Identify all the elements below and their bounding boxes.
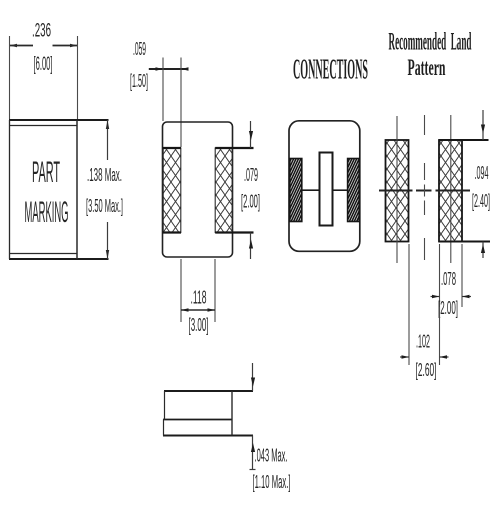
arrowhead left .059: [156, 67, 164, 71]
side view middle line: [163, 419, 232, 421]
svg-text:CONNECTIONS: CONNECTIONS: [293, 55, 368, 86]
side view top line: [164, 390, 253, 392]
arrowhead right .236: [70, 44, 78, 48]
dimension line .094 upper: [482, 110, 484, 140]
arrowhead right .078: [462, 295, 470, 299]
base left edge: [163, 420, 165, 436]
svg-text:PART: PART: [32, 156, 60, 189]
dimension line .043 lower: [252, 436, 254, 470]
side view right edge: [231, 391, 233, 436]
connections outline rounded rect: [289, 121, 360, 252]
extension line left .059: [162, 58, 164, 122]
arrowhead left .236: [10, 44, 18, 48]
svg-text:Pattern: Pattern: [408, 55, 446, 80]
horizontal centerline through pads: [379, 190, 470, 192]
right terminal pad hatched: [348, 159, 360, 222]
svg-text:MARKING: MARKING: [25, 196, 69, 229]
left pad vertical centerline: [396, 116, 398, 263]
extension line left .118: [180, 259, 182, 322]
body left edge: [9, 120, 11, 259]
extension line left .236: [9, 36, 11, 119]
extension line left .078: [439, 244, 441, 307]
svg-text:.059: .059: [133, 39, 146, 59]
arrowhead top .138: [106, 120, 109, 129]
dimension arrow line left .078: [431, 296, 440, 298]
right pad top edge / extension: [215, 147, 253, 149]
dimension line .079 lower: [250, 233, 252, 260]
svg-text:[2.00]: [2.00]: [438, 298, 458, 318]
left land pad crosshatched: [386, 140, 409, 242]
svg-text:Recommended Land: Recommended Land: [389, 29, 472, 56]
lead wire left: [302, 189, 320, 191]
svg-text:.079: .079: [244, 165, 258, 185]
body inner bottom line: [10, 253, 77, 255]
right land pad crosshatched: [439, 140, 462, 242]
arrowhead left .102: [402, 355, 410, 359]
left terminal pad hatched: [290, 159, 302, 222]
extension line right .236: [77, 36, 79, 119]
right pad vertical centerline: [450, 115, 452, 263]
right pad bottom extension line: [439, 241, 490, 243]
svg-text:.094: .094: [475, 163, 489, 183]
svg-text:.078: .078: [441, 269, 456, 289]
dimension line .043 upper: [252, 363, 254, 391]
svg-text:.118: .118: [191, 288, 207, 308]
svg-text:.043 Max.: .043 Max.: [255, 446, 288, 466]
svg-text:.102: .102: [416, 332, 430, 352]
svg-text:[2.00]: [2.00]: [241, 192, 260, 212]
body outline bottom line: [9, 258, 109, 260]
dimension line .138: [107, 120, 109, 259]
arrowhead lower .079: [249, 240, 253, 249]
svg-text:[2.40]: [2.40]: [472, 191, 490, 211]
arrowhead upper .079: [249, 131, 253, 140]
body outline top line: [9, 119, 109, 121]
svg-text:[3.00]: [3.00]: [189, 315, 209, 335]
arrowhead upper .094: [481, 125, 485, 134]
right pad bottom edge / extension: [215, 231, 253, 233]
svg-text:[2.60]: [2.60]: [416, 360, 437, 380]
arrowhead lower .043: [251, 443, 255, 452]
svg-text:.138 Max.: .138 Max.: [87, 165, 122, 185]
arrowhead lower .094: [481, 244, 485, 253]
left pad bottom edge: [163, 231, 182, 233]
left pad top edge: [163, 147, 182, 149]
crystal element rect: [320, 153, 333, 226]
arrowhead left .118: [181, 308, 189, 312]
arrowhead upper .043: [251, 378, 255, 387]
svg-text:[6.00]: [6.00]: [34, 54, 53, 75]
right pad crosshatched: [215, 148, 232, 233]
dimension line .059: [149, 68, 187, 70]
body inner top line: [10, 125, 77, 127]
dimension line .236: [10, 45, 78, 47]
svg-text:[1.10 Max.]: [1.10 Max.]: [253, 472, 291, 492]
arrowhead right .059: [181, 67, 189, 71]
lead wire right: [333, 189, 348, 191]
lid left edge: [164, 391, 166, 420]
right pad top extension line: [439, 139, 489, 141]
extension line right .078: [461, 244, 463, 307]
side view bottom line: [163, 435, 253, 437]
arrowhead left .078: [432, 295, 440, 299]
arrowhead bottom .138: [106, 250, 109, 259]
arrowhead right .118: [208, 308, 216, 312]
svg-text:[1.50]: [1.50]: [130, 71, 148, 91]
arrowhead right .102: [440, 355, 448, 359]
dimension line .094 lower: [482, 242, 484, 259]
left pad crosshatched: [163, 148, 181, 233]
dimension line .079 upper: [250, 121, 252, 148]
extension line right .102: [439, 307, 441, 365]
package outline rounded rect: [163, 122, 233, 257]
dimension arrow line right .102: [440, 356, 449, 358]
center mark vertical dashed line: [424, 115, 426, 260]
dimension line foot tick: [250, 469, 256, 471]
svg-text:[3.50 Max.]: [3.50 Max.]: [86, 196, 123, 216]
extension line right .118: [214, 259, 216, 322]
dimension arrow line left .102: [400, 356, 409, 358]
dimension line .118: [181, 309, 215, 311]
extension line left .102: [408, 244, 410, 365]
svg-text:.236: .236: [32, 21, 51, 42]
body right edge: [76, 120, 78, 259]
dimension arrow line right .078: [462, 296, 471, 298]
extension line right .059: [180, 58, 182, 148]
